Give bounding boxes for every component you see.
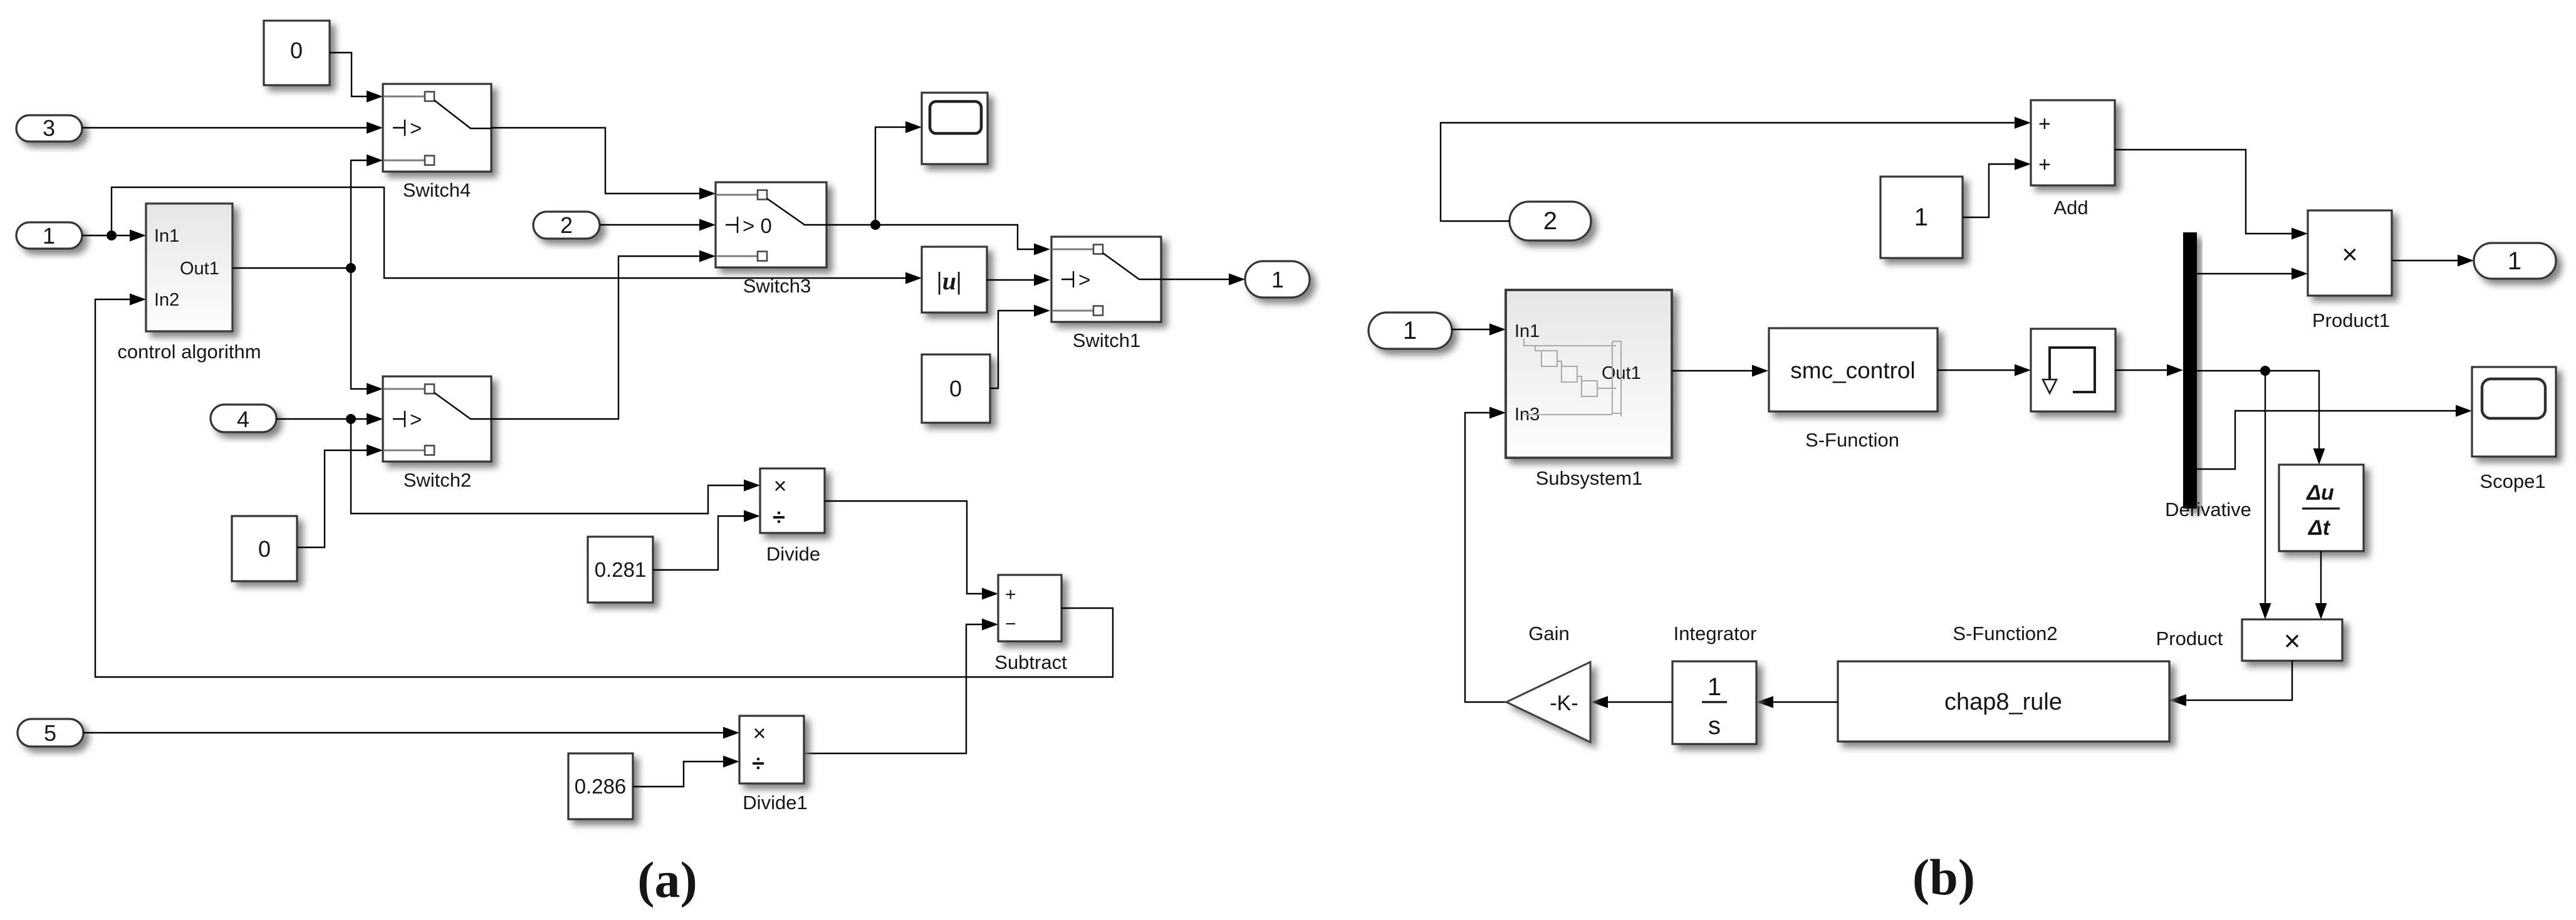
svg-text:S-Function2: S-Function2 bbox=[1953, 623, 2057, 644]
inport 3 bbox=[16, 115, 82, 142]
integrator block 1/s bbox=[1672, 623, 1756, 744]
outport 1 (a) bbox=[1245, 261, 1310, 297]
svg-text:Scope1: Scope1 bbox=[2480, 470, 2545, 492]
svg-text:4: 4 bbox=[237, 406, 249, 432]
scope block (a) bbox=[922, 93, 988, 164]
svg-text:>: > bbox=[410, 408, 422, 431]
inport 4 bbox=[211, 405, 276, 432]
svg-text:s: s bbox=[1708, 712, 1721, 740]
svg-text:1: 1 bbox=[1708, 673, 1721, 701]
svg-text:0.286: 0.286 bbox=[575, 775, 627, 798]
svg-text:In1: In1 bbox=[1515, 321, 1540, 341]
switch Switch1 bbox=[1051, 237, 1161, 351]
svg-text:×: × bbox=[2342, 239, 2358, 270]
svg-text:0: 0 bbox=[258, 536, 271, 562]
wire Gain out to Subsystem1 In3 bbox=[1465, 407, 1506, 703]
svg-text:Derivative: Derivative bbox=[2165, 499, 2251, 520]
svg-text:Product: Product bbox=[2156, 628, 2223, 649]
wire Switch3 out to Switch1 in1 with scope branch bbox=[827, 121, 1050, 256]
product block Divide1 bbox=[739, 716, 808, 814]
subsystem control algorithm bbox=[117, 204, 261, 363]
wire Divide1 out to Subtract minus bbox=[804, 619, 998, 754]
wire inport2b to Add in1 bbox=[1441, 117, 2031, 222]
svg-text:|u|: |u| bbox=[937, 267, 962, 295]
scope block Scope1 bbox=[2472, 367, 2556, 492]
wire smc_control to Memory bbox=[1937, 364, 2031, 376]
abs block |u| bbox=[922, 247, 987, 313]
mux bar Derivative bbox=[2165, 232, 2251, 520]
svg-text:Out1: Out1 bbox=[180, 259, 219, 279]
svg-text:Gain: Gain bbox=[1528, 623, 1569, 644]
wire Product out to chap8_rule bbox=[2169, 661, 2292, 706]
svg-text:Subtract: Subtract bbox=[994, 651, 1067, 673]
sum block Add bbox=[2031, 100, 2115, 219]
wire Memory to Derivative bar bbox=[2115, 364, 2183, 376]
s-function block chap8_rule bbox=[1838, 623, 2169, 742]
svg-text:1: 1 bbox=[2508, 247, 2521, 275]
wire chap8_rule to Integrator bbox=[1756, 696, 1838, 708]
svg-text:Switch4: Switch4 bbox=[403, 179, 471, 201]
wire Switch2 out to Switch3 in3 bbox=[491, 251, 716, 420]
constant block 0 (bottom left) bbox=[232, 516, 297, 581]
inport 1 (b) bbox=[1369, 313, 1452, 349]
wire constant0top to Switch4 in1 bbox=[330, 53, 383, 103]
svg-text:Switch2: Switch2 bbox=[404, 469, 472, 491]
svg-text:In2: In2 bbox=[154, 290, 179, 310]
inport 2 (a) bbox=[533, 212, 600, 239]
wire inport4 to Switch2 in2 and branch to Divide bbox=[276, 413, 760, 514]
wire Derivative bar out with junction to du/dt and Product in1 bbox=[2197, 366, 2325, 619]
inport 5 bbox=[18, 719, 83, 747]
outport 1 (b) bbox=[2474, 243, 2556, 279]
svg-text:smc_control: smc_control bbox=[1790, 358, 1915, 383]
svg-text:In1: In1 bbox=[154, 226, 179, 246]
svg-text:Divide: Divide bbox=[766, 543, 820, 565]
svg-text:1: 1 bbox=[1403, 317, 1417, 344]
product block Product1 bbox=[2308, 210, 2392, 331]
svg-text:×: × bbox=[773, 473, 786, 499]
svg-text:1: 1 bbox=[1271, 267, 1284, 292]
discrete derivative block du/dt bbox=[2279, 465, 2364, 551]
wire control algorithm Out1 junction to Switch4 in3 and Switch2 in1 bbox=[232, 155, 383, 395]
svg-text:Product1: Product1 bbox=[2312, 309, 2390, 331]
svg-text:+: + bbox=[1005, 584, 1016, 605]
switch Switch2 bbox=[383, 376, 491, 491]
wire Switch4 out to Switch3 in1 bbox=[491, 128, 716, 200]
svg-text:÷: ÷ bbox=[773, 504, 785, 530]
wire constant1 to Add in2 bbox=[1963, 158, 2031, 218]
wire Integrator to Gain bbox=[1591, 696, 1672, 708]
sum block Subtract bbox=[994, 575, 1067, 673]
svg-text:chap8_rule: chap8_rule bbox=[1944, 689, 2062, 715]
svg-text:> 0: > 0 bbox=[743, 214, 772, 237]
wire Product1 out to outport 1b bbox=[2392, 255, 2474, 267]
svg-text:Integrator: Integrator bbox=[1674, 623, 1757, 644]
svg-text:+: + bbox=[2038, 153, 2051, 177]
wire inport3 to Switch4 in2 bbox=[82, 122, 383, 134]
svg-text:Switch3: Switch3 bbox=[743, 275, 811, 297]
wire inport2a to Switch3 in2 bbox=[600, 219, 716, 231]
svg-text:+: + bbox=[2038, 112, 2051, 136]
svg-text:Δu: Δu bbox=[2305, 481, 2334, 505]
wire abs out to Switch1 in2 bbox=[987, 274, 1050, 286]
svg-text:3: 3 bbox=[43, 115, 55, 141]
svg-text:>: > bbox=[410, 116, 422, 140]
svg-text:2: 2 bbox=[560, 212, 573, 238]
svg-text:÷: ÷ bbox=[752, 750, 764, 776]
svg-text:(a): (a) bbox=[637, 851, 697, 908]
wire Divide out to Subtract plus bbox=[825, 501, 998, 600]
subsystem Subsystem1 bbox=[1506, 290, 1672, 489]
wire Add out to Product1 in1 bbox=[2115, 150, 2308, 240]
svg-text:Divide1: Divide1 bbox=[743, 792, 807, 814]
constant block 0.286 bbox=[568, 753, 633, 819]
svg-text:0: 0 bbox=[290, 38, 303, 63]
svg-text:S-Function: S-Function bbox=[1805, 429, 1899, 451]
wire inport5 to Divide1 in1 bbox=[83, 727, 739, 739]
wire constant0mid to Switch1 in3 bbox=[990, 305, 1050, 389]
svg-text:control algorithm: control algorithm bbox=[117, 341, 261, 363]
wire inport1 to control algorithm In1 and long branch to Abs bbox=[82, 187, 922, 284]
wire Subsystem1 Out1 to smc_control bbox=[1672, 365, 1768, 377]
inport 2 (b) bbox=[1510, 202, 1591, 240]
svg-text:Subsystem1: Subsystem1 bbox=[1536, 467, 1643, 489]
wire constant0bl to Switch2 in3 bbox=[297, 445, 383, 548]
svg-text:>: > bbox=[1078, 268, 1090, 291]
wire constant0.286 to Divide1 in2 bbox=[633, 756, 739, 787]
constant block 0.281 bbox=[588, 537, 653, 602]
svg-text:5: 5 bbox=[44, 720, 56, 746]
svg-text:×: × bbox=[753, 720, 766, 746]
svg-text:-K-: -K- bbox=[1550, 691, 1578, 715]
svg-text:1: 1 bbox=[43, 223, 55, 249]
svg-text:Δt: Δt bbox=[2307, 516, 2331, 540]
svg-text:−: − bbox=[1005, 614, 1016, 634]
svg-text:0.281: 0.281 bbox=[595, 558, 647, 581]
svg-text:2: 2 bbox=[1543, 207, 1557, 235]
svg-text:×: × bbox=[2284, 624, 2301, 657]
wire constant0.281 to Divide in2 bbox=[653, 510, 760, 571]
svg-text:0: 0 bbox=[949, 376, 962, 401]
wire inport1b to Subsystem1 In1 bbox=[1452, 324, 1506, 336]
constant block 1 (b) bbox=[1880, 177, 1963, 258]
memory block bbox=[2031, 329, 2115, 411]
svg-text:1: 1 bbox=[1914, 204, 1928, 231]
inport 1 bbox=[16, 222, 82, 249]
wire du/dt out to Product in2 bbox=[2315, 551, 2327, 619]
wire Subtract out feedback to control algorithm In2 bbox=[95, 294, 1113, 678]
gain block -K- bbox=[1506, 623, 1590, 742]
product block Divide bbox=[760, 468, 825, 565]
wire Derivative bar to Product1 in2 bbox=[2197, 268, 2308, 280]
wire Derivative bar stub to Scope1 bbox=[2197, 405, 2472, 470]
switch Switch3 bbox=[716, 182, 827, 297]
constant block 0 (top) bbox=[264, 21, 330, 85]
wire Switch1 out to outport 1 bbox=[1161, 274, 1245, 286]
product block Product (b) bbox=[2156, 619, 2342, 661]
svg-text:Add: Add bbox=[2053, 197, 2088, 219]
s-function block smc_control bbox=[1769, 328, 1937, 451]
constant block 0 (middle) bbox=[922, 354, 990, 423]
svg-text:Switch1: Switch1 bbox=[1073, 329, 1141, 351]
switch Switch4 bbox=[383, 84, 491, 201]
svg-text:(b): (b) bbox=[1912, 849, 1975, 906]
